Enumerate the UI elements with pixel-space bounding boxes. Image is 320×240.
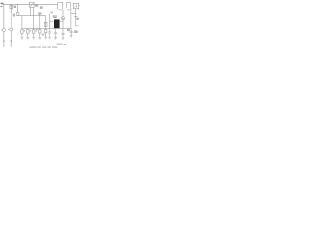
diode D2 bar [62,18,64,19]
label R2 [30,30,32,32]
ground C5 [70,36,73,38]
wire x49.7 vertical [49,14,51,28]
pin wire left of IC [50,20,54,22]
IC U1 body [54,19,60,28]
pin wire right of IC [60,20,63,22]
caption text segment 5 [52,47,58,48]
polarity tick second [8,28,9,30]
diode circle D2 [61,17,64,20]
ground C4 [62,38,65,40]
wire second drop upper [10,4,12,13]
wire A left corner down [21,16,23,29]
wire second drop middle [10,13,12,27]
component on x45.7 [44,22,47,26]
terminal circle second [10,28,13,31]
ground R1 [21,37,24,39]
capacitor C4 [62,28,65,37]
wire stub from bridge to wire A [29,8,31,16]
ground C3 [54,38,57,40]
capacitor C2 [48,28,51,37]
wire R4 vertical [39,14,41,29]
capacitor C3 [54,28,57,37]
wire second drop lower [10,27,12,47]
label R3 [35,30,37,32]
wire B horizontal bus [22,27,71,29]
net label VIN [0,3,3,7]
component box Q1 [73,3,78,9]
Q1 internal symbol [74,5,77,8]
ground R2 [26,37,29,39]
label e [13,14,15,17]
resistor R3 [33,28,35,37]
label on rail component [35,5,38,7]
ground R5 [44,37,47,39]
lower tick [76,25,79,27]
wire winding1 down [62,10,64,29]
wire top rail [3,3,58,5]
resistor R4 [39,28,41,37]
wire horizontal link right [71,12,76,14]
component on rail [30,2,34,7]
wire winding2 down [70,8,72,28]
label U1 line1 [53,15,57,16]
capacitor C5 [70,28,73,35]
label near C5 [74,30,77,33]
label C1 [40,6,43,9]
wire x75.8 down [75,9,77,27]
wire A horizontal [18,15,46,17]
wire to right edge [79,5,80,7]
caption text segment 4 [48,47,52,48]
label above x49.7 [50,12,53,14]
connector mark second [10,40,12,42]
wire third drop [17,4,19,15]
terminal circle left [2,29,5,32]
ground R4 [38,37,41,39]
label near C4 [67,29,70,31]
resistor R2 [27,28,29,37]
label R1 [24,30,26,32]
bridge diagonal [30,3,33,7]
transformer core marks [58,9,70,11]
label left of R4 [36,28,38,30]
label R4 [38,12,41,14]
switch S1 [17,13,19,16]
label FB [76,18,79,20]
label right bottom [57,44,63,45]
ground C2 [48,37,51,39]
plate tick [74,16,78,18]
ground R3 [32,37,35,39]
label right of fuse [14,6,16,8]
label between legs [42,34,45,36]
label U1 line2 [53,17,57,18]
caption text segment 2 [38,47,42,48]
connector mark left [3,40,5,42]
wire from rail component down [33,8,35,29]
transformer winding 2 [67,3,71,9]
caption text segment 3 [42,47,47,48]
wire left drop [3,4,5,47]
resistor R5 [45,28,47,37]
polarity tick left [1,29,2,31]
wire x45.7 vertical [45,16,47,29]
caption text segment 1 [30,47,37,48]
fuse F1 [10,5,13,8]
resistor R1 [21,28,23,37]
label right bottom 2 [64,44,67,45]
transformer winding 1 [58,2,63,9]
